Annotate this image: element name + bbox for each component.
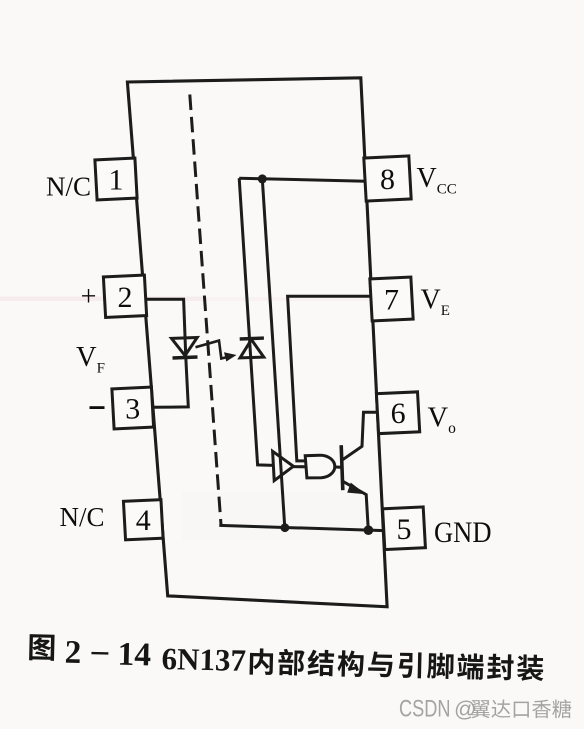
dashed isolation line (190, 95, 221, 525)
caption chinese text (250, 648, 274, 675)
caption 图 (29, 634, 54, 661)
svg-text:–: – (90, 633, 109, 669)
svg-text:4: 4 (136, 504, 151, 537)
LED cathode bar (173, 357, 198, 358)
transistor emitter arrowhead (347, 483, 366, 495)
wire gate output to transistor base (335, 466, 342, 469)
pin 4 box (123, 500, 163, 540)
svg-text:8: 8 (380, 163, 395, 196)
wire photodiode cathode line (rail to amp input) (239, 178, 273, 465)
wire amp power line (Vcc rail to GND rail) (262, 179, 285, 528)
wire pin2 to LED anode (145, 299, 186, 357)
node junction dot amp-ground (281, 523, 290, 532)
pin 2 box (103, 275, 146, 317)
svg-text:5: 5 (397, 513, 412, 546)
wire pin7 VE to AND gate enable input (288, 296, 372, 461)
transistor Q1 base bar (341, 445, 343, 490)
svg-text:2: 2 (64, 635, 81, 671)
wire Vcc top rail to pin 8 (239, 178, 366, 181)
svg-text:7: 7 (384, 284, 399, 317)
transistor collector wire to pin 6 (343, 412, 378, 460)
node junction dot emitter-ground (364, 525, 374, 535)
pin 1 box (95, 158, 137, 200)
wire GND rail to pin 5 (219, 525, 384, 530)
LED (emitter diode) triangle (172, 338, 198, 356)
light arrow zigzag (196, 341, 230, 359)
svg-text:1: 1 (109, 164, 124, 197)
wire LED cathode to pin3 (152, 357, 188, 407)
op-amp amplifier triangle (273, 451, 294, 480)
svg-text:+: + (81, 282, 97, 313)
svg-text:3: 3 (125, 393, 140, 426)
photodiode triangle (240, 340, 264, 358)
package outline (DIP-8 body, skewed by scan) (127, 78, 387, 607)
svg-text:GND: GND (434, 517, 492, 549)
svg-text:2: 2 (118, 281, 133, 314)
wire amp output to AND gate (293, 465, 306, 468)
pin 6 box (376, 392, 419, 434)
pin 7 box (370, 277, 413, 321)
pin 3 box (112, 387, 154, 429)
svg-text:6: 6 (391, 397, 406, 430)
AND gate U1 (305, 455, 335, 478)
svg-text:14: 14 (117, 637, 151, 674)
label minus (90, 406, 105, 409)
svg-text:N/C: N/C (46, 171, 91, 201)
svg-text:N/C: N/C (59, 502, 104, 532)
pin 8 box (364, 156, 411, 201)
transistor emitter wire to GND rail (343, 481, 369, 530)
photodiode cathode bar (240, 336, 264, 340)
svg-text:6N137: 6N137 (161, 641, 246, 678)
node junction dot on Vcc rail (258, 174, 267, 183)
pin 5 box (383, 507, 426, 550)
svg-text:CSDN: CSDN (399, 696, 451, 723)
watermark chinese (471, 700, 490, 718)
